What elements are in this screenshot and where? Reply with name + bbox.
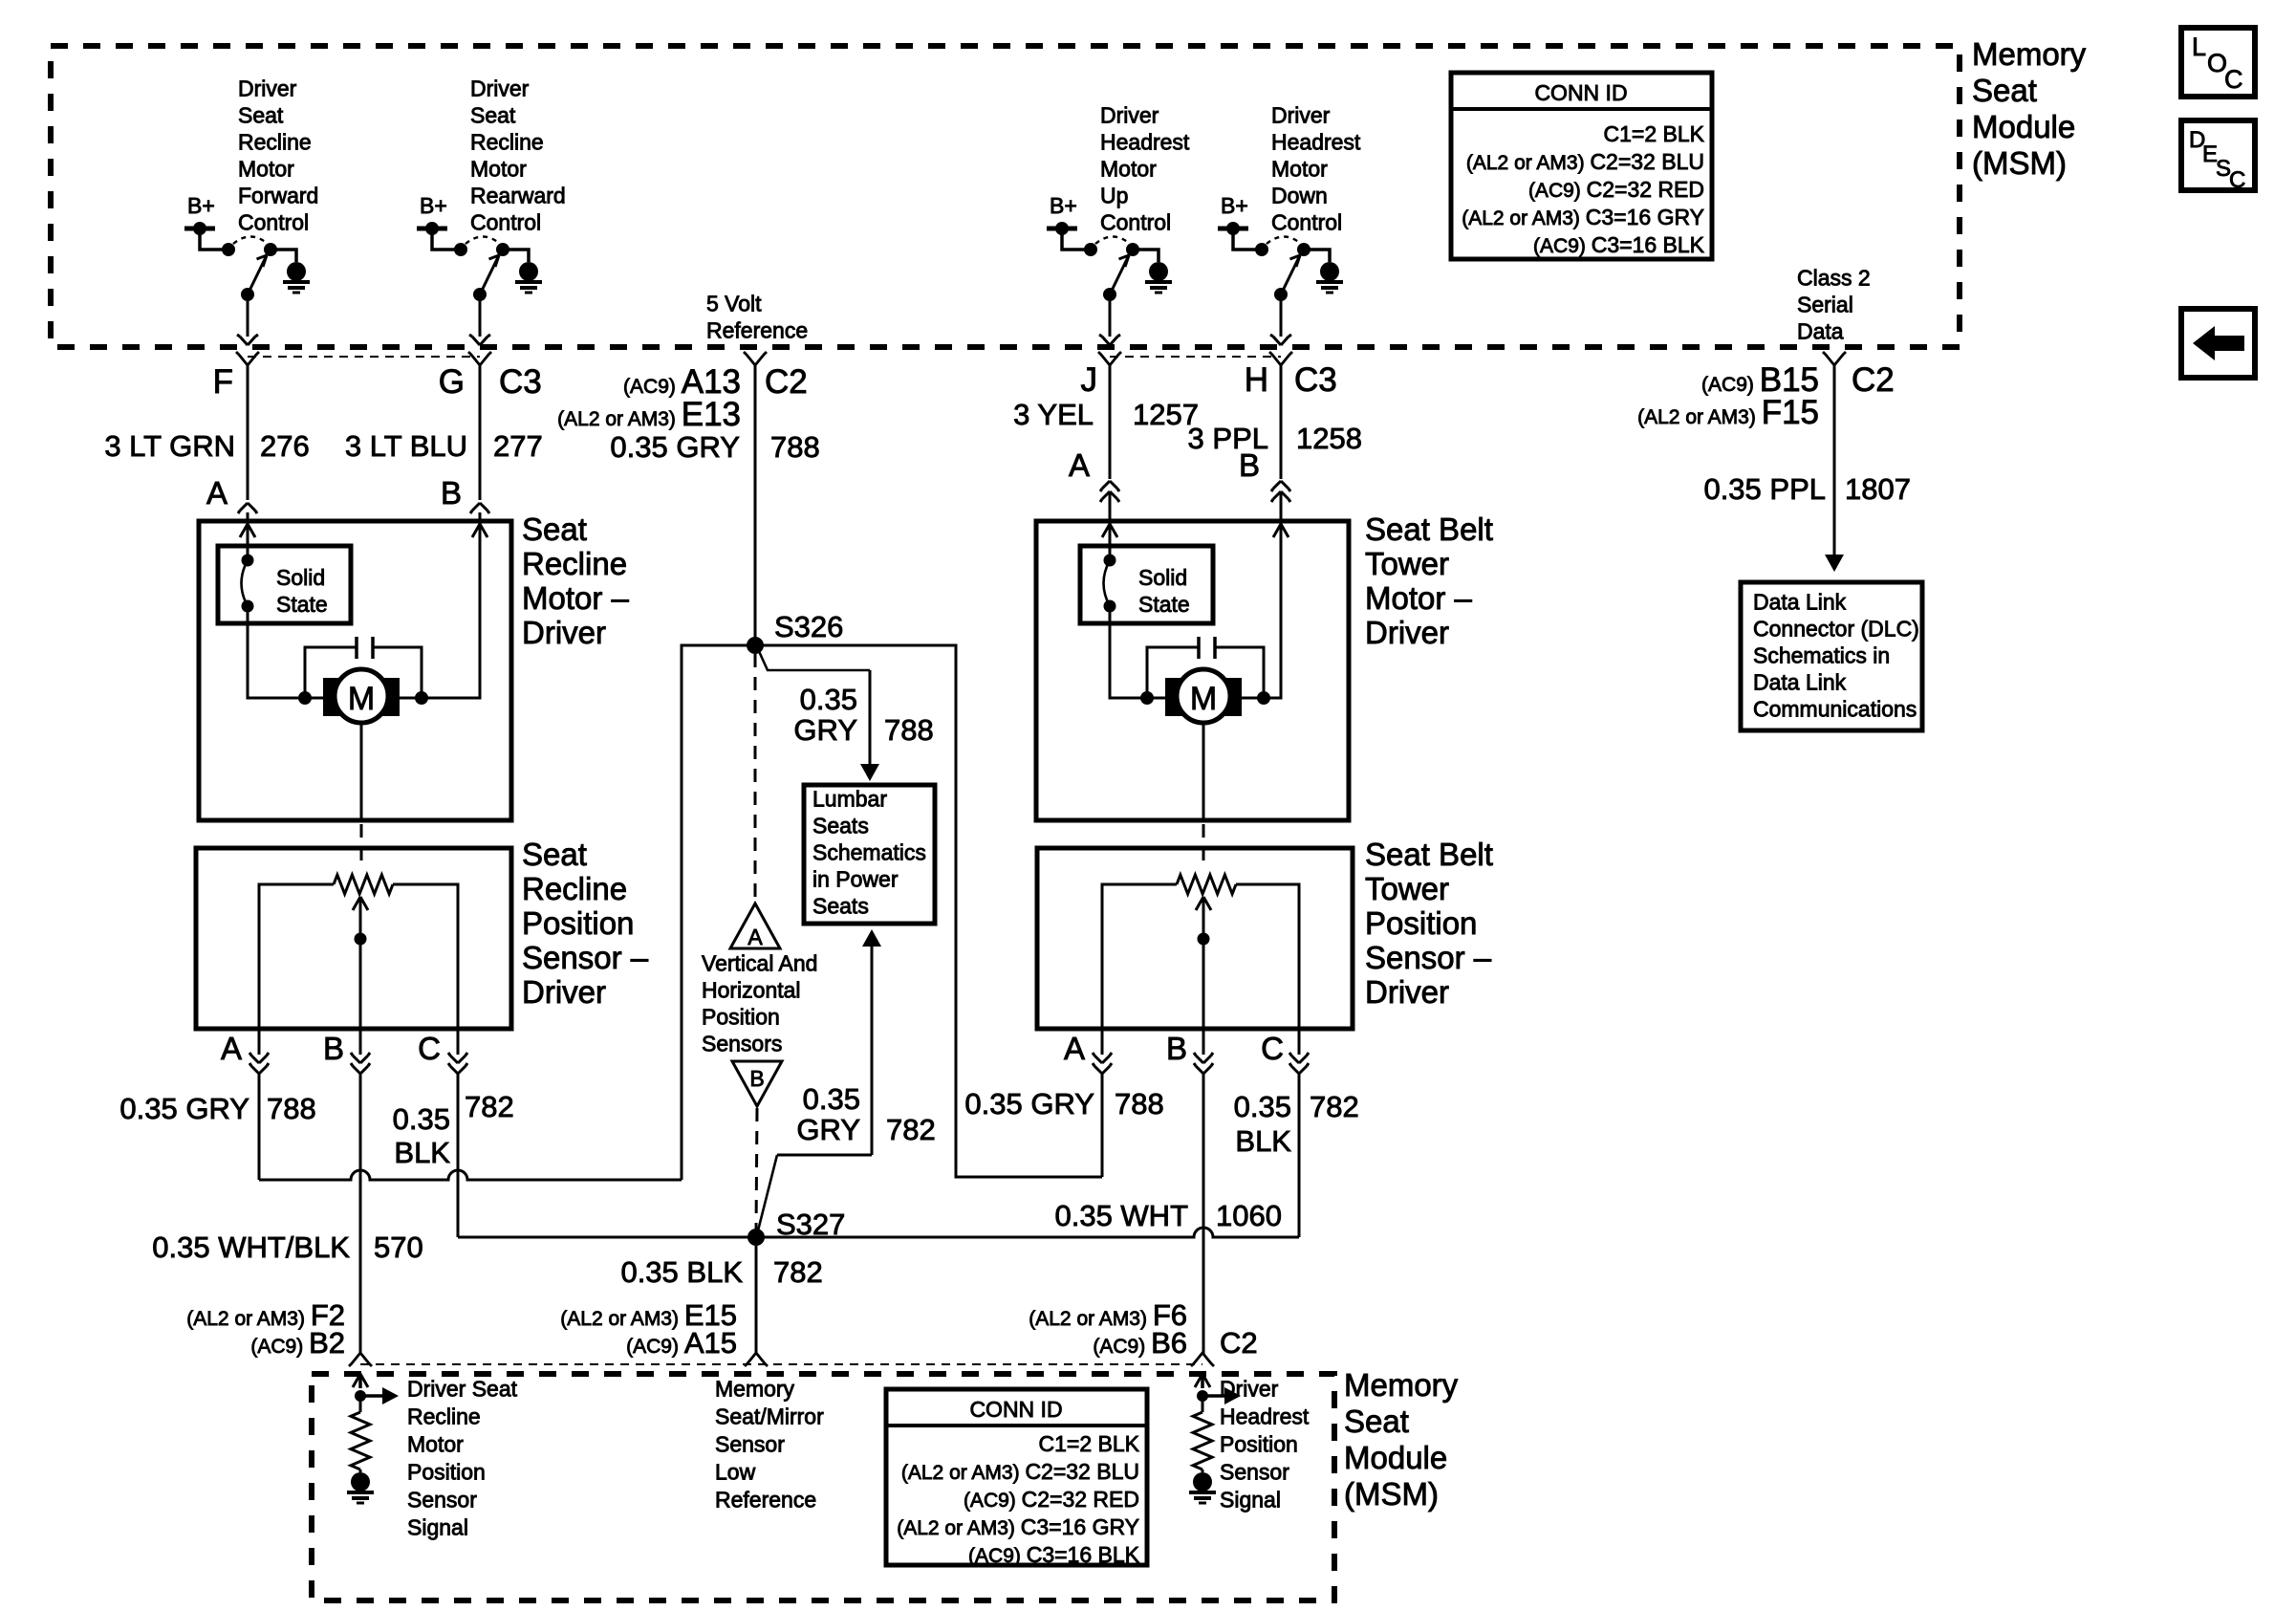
svg-text:A: A [206,475,227,511]
svg-text:Low: Low [715,1460,756,1485]
svg-text:Driver: Driver [1365,615,1449,650]
svg-text:Seat: Seat [238,103,284,128]
sensor pin C at x=479 [418,1029,467,1081]
node S327 splice [747,1208,845,1246]
svg-text:Seats: Seats [812,814,869,838]
svg-text:Sensor: Sensor [407,1488,477,1513]
svg-text:Tower: Tower [1365,871,1449,906]
label pin B (belt tower motor) [1239,447,1260,483]
svg-text:B+: B+ [1050,193,1077,218]
svg-text:Module: Module [1344,1440,1447,1475]
wire 1257 (J to belt tower motor A) [1100,363,1119,521]
wire 276 (F to motor A) [238,363,257,521]
svg-text:782: 782 [1310,1090,1359,1123]
svg-text:Lumbar: Lumbar [812,787,887,812]
wire gry 788 S326 to lumbar schematic arrow [758,649,879,781]
svg-text:Recline: Recline [238,130,312,155]
mechanical link (recline motor to sensor) [360,824,363,870]
svg-text:A: A [1064,1031,1085,1066]
svg-text:Control: Control [1100,210,1171,235]
svg-text:Seats: Seats [812,894,869,919]
memory seat module (MSM) bottom label [1344,1367,1459,1512]
DESC legend box [2181,120,2255,193]
svg-text:0.35 WHT/BLK: 0.35 WHT/BLK [152,1230,350,1264]
svg-text:3 LT GRN: 3 LT GRN [104,429,235,463]
svg-text:0.35: 0.35 [393,1102,450,1136]
svg-text:Driver: Driver [1271,103,1331,128]
lumbar seats schematics reference box [804,785,935,924]
back arrow button [2181,309,2255,378]
svg-text:0.35 GRY: 0.35 GRY [610,430,740,464]
svg-text:(AL2 or AM3) C3=16 GRY: (AL2 or AM3) C3=16 GRY [1462,205,1704,229]
label 3 PPL 1258 [1188,422,1362,455]
svg-text:Driver: Driver [238,76,297,101]
node S326 splice [747,610,843,654]
svg-text:Sensor –: Sensor – [1365,940,1492,975]
svg-text:788: 788 [770,430,820,464]
svg-text:BLK: BLK [1235,1124,1291,1158]
svg-text:Connector (DLC): Connector (DLC) [1753,617,1919,642]
label pin A (belt tower motor) [1069,447,1090,483]
svg-text:Position: Position [1365,905,1477,941]
LOC legend box [2181,28,2255,97]
svg-text:0.35 WHT: 0.35 WHT [1054,1199,1188,1232]
svg-text:788: 788 [267,1092,316,1125]
svg-text:A: A [1069,447,1090,483]
label 0.35 GRY 782 (lumbar return) [796,1082,935,1146]
svg-text:Headrest: Headrest [1271,130,1361,155]
svg-text:Seat: Seat [1972,73,2037,108]
svg-text:788: 788 [1115,1087,1164,1121]
label 0.35 BLK 782 (left sensor C) [393,1090,514,1169]
svg-text:782: 782 [465,1090,514,1123]
connector pin G [439,352,491,401]
svg-text:C1=2 BLK: C1=2 BLK [1604,121,1705,146]
connector pin H [1245,352,1292,399]
svg-text:276: 276 [260,429,310,463]
svg-text:(AL2 or AM3) C2=32 BLU: (AL2 or AM3) C2=32 BLU [901,1459,1139,1484]
label pin B (seat recline motor) [441,475,462,511]
svg-text:M: M [348,681,375,717]
svg-text:GRY: GRY [796,1113,860,1146]
svg-text:Seat: Seat [470,103,516,128]
svg-text:(MSM): (MSM) [1972,145,2067,181]
svg-text:B: B [1239,447,1260,483]
label seat belt tower position sensor - driver [1365,837,1493,1010]
label 0.35 BLK 782 (right sensor C) [1234,1090,1359,1158]
label vertical and horizontal position sensors [702,951,817,1056]
label driver headrest motor down control [1271,103,1361,235]
svg-text:Control: Control [470,210,541,235]
svg-text:L: L [2192,33,2206,61]
svg-text:State: State [276,592,328,617]
svg-text:Position: Position [407,1460,486,1485]
svg-text:Sensor: Sensor [1220,1460,1289,1485]
svg-text:Up: Up [1100,184,1128,208]
data link connector (DLC) reference box [1741,582,1922,730]
memory seat module (MSM) top label [1972,36,2087,181]
svg-text:Driver: Driver [522,615,606,650]
svg-text:Seat Belt: Seat Belt [1365,512,1493,547]
label seat belt tower motor - driver [1365,512,1493,650]
svg-text:Headrest: Headrest [1100,130,1190,155]
svg-text:277: 277 [493,429,543,463]
svg-text:C1=2 BLK: C1=2 BLK [1039,1431,1140,1456]
label 3 LT GRN 276 [104,429,309,463]
wire 277 (G to motor B) [470,363,489,521]
svg-text:Seat Belt: Seat Belt [1365,837,1493,872]
CONN ID table (top) [1451,73,1712,259]
svg-text:CONN ID: CONN ID [969,1397,1062,1422]
label 0.35 GRY 788 (lumbar feed) [793,683,933,747]
label C2 (center) [765,363,808,401]
wire 570 left sensor B to MSM [359,1081,362,1354]
svg-text:0.35 BLK: 0.35 BLK [620,1255,743,1289]
svg-text:Headrest: Headrest [1220,1404,1310,1429]
label 0.35 PPL 1807 [1703,472,1911,506]
svg-text:J: J [1081,361,1098,399]
svg-text:Signal: Signal [407,1515,468,1540]
svg-text:Solid: Solid [276,565,325,590]
label C3 (left) [499,363,542,401]
svg-text:Motor: Motor [470,157,527,182]
label driver headrest position sensor signal [1220,1377,1310,1513]
connector C3 dashed face (F-G) [248,356,480,358]
label 0.35 GRY 788 (top) [610,430,819,464]
svg-text:A: A [221,1031,242,1066]
label seat recline motor - driver [522,512,630,650]
svg-text:Forward: Forward [238,184,318,208]
svg-text:Seat/Mirror: Seat/Mirror [715,1404,824,1429]
svg-text:Reference: Reference [706,318,808,343]
connector pin F [213,352,259,401]
svg-text:C2: C2 [1852,361,1895,399]
svg-text:788: 788 [884,713,934,747]
svg-text:0.35: 0.35 [800,683,857,716]
label C2 (bottom) [1220,1326,1258,1360]
sensor pin A at x=271 [221,1029,269,1081]
svg-text:1258: 1258 [1296,422,1362,455]
svg-text:(AC9) C2=32 RED: (AC9) C2=32 RED [1528,177,1704,202]
svg-text:Sensors: Sensors [702,1032,782,1056]
svg-text:C2: C2 [1220,1326,1258,1360]
label seat recline position sensor - driver [522,837,649,1010]
wire 788 (C2 to S326) [754,363,757,645]
svg-text:F: F [213,363,233,401]
svg-text:(AC9) C3=16 BLK: (AC9) C3=16 BLK [968,1542,1140,1567]
label 5 volt reference [706,292,808,343]
svg-text:BLK: BLK [394,1136,450,1169]
svg-text:Driver: Driver [1100,103,1159,128]
svg-text:Rearward: Rearward [470,184,566,208]
wire 1258 (H to belt tower motor B) [1271,363,1290,521]
svg-text:Motor –: Motor – [522,580,630,616]
svg-text:Vertical And: Vertical And [702,951,817,976]
svg-text:C: C [2229,167,2245,193]
svg-text:B: B [441,475,462,511]
svg-text:B+: B+ [1221,193,1248,218]
svg-text:Recline: Recline [470,130,544,155]
svg-text:C3: C3 [1294,361,1337,399]
svg-text:Tower: Tower [1365,546,1449,581]
svg-text:782: 782 [886,1113,936,1146]
svg-text:(AL2 or AM3) C3=16 GRY: (AL2 or AM3) C3=16 GRY [897,1514,1139,1539]
svg-text:M: M [1190,681,1217,717]
seat belt tower position sensor - driver box [1037,848,1353,1029]
label 0.35 BLK 782 (S327 stub) [620,1255,822,1289]
svg-text:Recline: Recline [522,871,627,906]
svg-text:Data Link: Data Link [1753,670,1847,695]
connector pin J [1081,352,1122,399]
svg-text:0.35 GRY: 0.35 GRY [119,1092,249,1125]
svg-text:C: C [2224,65,2243,94]
wire 1060 right sensor B to MSM [1202,1081,1205,1354]
sensor pin A at x=1153 [1064,1029,1112,1081]
label driver seat recline motor forward control [238,76,318,235]
CONN ID table (bottom) [886,1389,1147,1567]
sensor pin C at x=1359 [1261,1029,1309,1081]
connector C2 dashed face (bottom) [360,1363,1202,1365]
wire C2 dashed to off-page triangle A [754,654,757,900]
svg-text:C3: C3 [499,363,542,401]
svg-text:0.35 PPL: 0.35 PPL [1703,472,1826,506]
svg-text:Motor: Motor [1100,157,1157,182]
label 3 LT BLU 277 [345,429,543,463]
svg-text:CONN ID: CONN ID [1534,80,1627,105]
wire blk 782 S327 horizontal (left C to right C) [458,1081,1299,1237]
svg-text:Sensor –: Sensor – [522,940,649,975]
svg-text:Seat: Seat [522,512,587,547]
mechanical link (belt tower motor to sensor) [1202,824,1205,870]
seat belt tower motor - driver box [1036,521,1349,820]
switch S2 driver seat recline motor rearward control [417,193,542,345]
connector pin C2 B15/F15 [1637,352,1846,431]
svg-text:782: 782 [773,1255,823,1289]
svg-text:B+: B+ [187,193,215,218]
wire gry 782 lumbar return to S327 [757,929,881,1234]
svg-text:Seat: Seat [1344,1404,1409,1439]
svg-text:A: A [747,925,763,949]
svg-text:B: B [1166,1031,1187,1066]
svg-text:Solid: Solid [1138,565,1187,590]
svg-text:570: 570 [374,1230,423,1264]
wire 1807 (C2 to DLC) [1825,363,1844,572]
switch S4 driver headrest motor down control [1218,193,1343,345]
seat recline position sensor - driver box [196,848,511,1029]
wire gry 788 S326 left branch to left sensor pin A [259,645,755,1180]
switch S3 driver headrest motor up control [1047,193,1172,345]
svg-text:Horizontal: Horizontal [702,978,801,1003]
svg-text:(MSM): (MSM) [1344,1476,1439,1512]
label driver seat recline motor position sensor signal [407,1377,518,1540]
svg-text:Memory: Memory [715,1377,795,1402]
svg-text:Position: Position [702,1005,780,1030]
svg-text:(AL2 or AM3) C2=32 BLU: (AL2 or AM3) C2=32 BLU [1466,149,1704,174]
svg-text:(AC9) C3=16 BLK: (AC9) C3=16 BLK [1533,232,1705,257]
svg-text:3 YEL: 3 YEL [1013,398,1094,431]
svg-text:S326: S326 [774,610,843,643]
svg-text:Signal: Signal [1220,1488,1281,1513]
connector pin C2 A13/E13 [557,352,767,433]
label pin A (seat recline motor) [206,475,227,511]
svg-text:Data Link: Data Link [1753,590,1847,615]
svg-text:Motor: Motor [407,1432,464,1457]
connector pin B2 half [349,1353,372,1366]
wire gry 788 S326 right branch to right sensor pin A [755,645,1102,1177]
label 0.35 WHT/BLK 570 [152,1230,422,1264]
svg-text:Schematics: Schematics [812,840,926,865]
svg-text:State: State [1138,592,1190,617]
svg-text:Control: Control [1271,210,1342,235]
svg-text:0.35 GRY: 0.35 GRY [964,1087,1094,1121]
svg-text:Position: Position [522,905,634,941]
sensor pin B at x=377 [323,1029,370,1081]
label C2 (right) [1852,361,1895,399]
memory seat module (MSM) top dashed border [51,46,1960,347]
svg-text:Module: Module [1972,109,2075,144]
svg-text:0.35: 0.35 [1234,1090,1291,1123]
svg-text:C: C [1261,1031,1284,1066]
label memory seat/mirror sensor low reference [715,1377,824,1513]
svg-text:B+: B+ [420,193,447,218]
svg-text:Driver: Driver [1220,1377,1279,1402]
off-page connector triangle A [730,903,780,949]
connector C3 dashed face (J-H) [1110,356,1281,358]
svg-text:Position: Position [1220,1432,1298,1457]
svg-text:Motor –: Motor – [1365,580,1473,616]
svg-text:Reference: Reference [715,1488,816,1513]
svg-text:5 Volt: 5 Volt [706,292,762,316]
svg-text:G: G [439,363,465,401]
label class 2 serial data [1797,266,1871,344]
svg-text:Class 2: Class 2 [1797,266,1871,291]
label 0.35 WHT 1060 [1054,1199,1282,1232]
svg-text:Driver Seat: Driver Seat [407,1377,518,1402]
svg-text:3 LT BLU: 3 LT BLU [345,429,467,463]
svg-text:Serial: Serial [1797,293,1853,317]
connector pin B6 half [1191,1353,1214,1366]
svg-text:Driver: Driver [470,76,530,101]
svg-text:B: B [323,1031,344,1066]
wire dashed triangle B to S327 [756,1108,757,1230]
svg-text:0.35: 0.35 [803,1082,860,1116]
svg-text:C: C [418,1031,441,1066]
label pins F2/B2 [186,1298,345,1360]
svg-text:Sensor: Sensor [715,1432,785,1457]
svg-text:Down: Down [1271,184,1328,208]
driver seat recline motor position sensor signal input [347,1374,399,1503]
svg-text:H: H [1245,361,1268,399]
svg-text:(AC9) C2=32 RED: (AC9) C2=32 RED [964,1487,1139,1512]
label pins F6/B6 [1029,1298,1187,1360]
svg-text:Data: Data [1797,319,1844,344]
label driver headrest motor up control [1100,103,1190,235]
label C3 (right) [1294,361,1337,399]
label 0.35 GRY 788 (right sensor A) [964,1087,1163,1121]
svg-text:Communications: Communications [1753,697,1917,722]
label 3 YEL 1257 [1013,398,1199,431]
svg-text:Recline: Recline [522,546,627,581]
svg-text:GRY: GRY [793,713,857,747]
svg-text:1060: 1060 [1216,1199,1282,1232]
sensor pin B at x=1259 [1166,1029,1213,1081]
svg-text:Motor: Motor [238,157,294,182]
svg-text:B: B [749,1066,764,1091]
seat recline motor - driver box [199,521,511,820]
memory seat module (MSM) bottom dashed border [312,1374,1334,1600]
svg-text:Motor: Motor [1271,157,1328,182]
svg-text:Memory: Memory [1344,1367,1459,1403]
svg-text:Driver: Driver [522,974,606,1010]
label driver seat recline motor rearward control [470,76,566,235]
wire 782 S327 to MSM low reference [755,1246,758,1354]
svg-text:in Power: in Power [812,867,899,892]
svg-text:Recline: Recline [407,1404,481,1429]
svg-text:C2: C2 [765,363,808,401]
svg-text:Driver: Driver [1365,974,1449,1010]
label 0.35 GRY 788 (left sensor A) [119,1092,315,1125]
label pins E15/A15 [560,1298,737,1360]
connector pin A15 half [745,1353,768,1366]
svg-text:Memory: Memory [1972,36,2087,72]
svg-text:Control: Control [238,210,309,235]
off-page connector triangle B [732,1061,782,1106]
svg-text:1807: 1807 [1845,472,1911,506]
switch S1 driver seat recline motor forward control [184,193,310,345]
driver headrest position sensor signal input [1189,1374,1241,1503]
svg-text:Seat: Seat [522,837,587,872]
svg-text:Schematics in: Schematics in [1753,643,1890,668]
